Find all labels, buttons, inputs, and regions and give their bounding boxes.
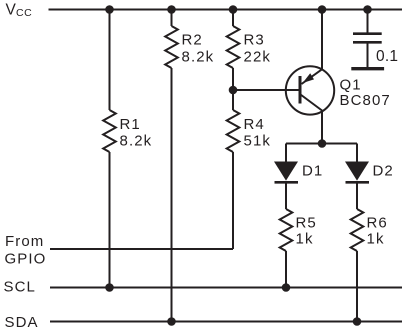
svg-text:R5: R5 xyxy=(296,215,317,232)
svg-text:8.2k: 8.2k xyxy=(182,49,215,66)
svg-text:R3: R3 xyxy=(244,31,265,48)
svg-text:D1: D1 xyxy=(302,163,323,180)
svg-text:R2: R2 xyxy=(182,31,203,48)
svg-text:SCL: SCL xyxy=(4,279,36,296)
svg-text:1k: 1k xyxy=(367,231,385,248)
svg-text:22k: 22k xyxy=(244,49,272,66)
svg-text:From: From xyxy=(5,233,44,250)
svg-text:1k: 1k xyxy=(296,231,314,248)
svg-text:Q1: Q1 xyxy=(340,77,362,94)
svg-text:R1: R1 xyxy=(120,116,141,133)
svg-text:0.1: 0.1 xyxy=(376,48,398,65)
svg-text:8.2k: 8.2k xyxy=(120,132,153,149)
svg-text:SDA: SDA xyxy=(5,314,39,331)
svg-text:R4: R4 xyxy=(244,116,265,133)
svg-text:GPIO: GPIO xyxy=(5,251,47,268)
svg-text:D2: D2 xyxy=(373,163,394,180)
svg-text:BC807: BC807 xyxy=(340,92,391,109)
svg-text:51k: 51k xyxy=(244,133,272,150)
svg-text:R6: R6 xyxy=(367,215,388,232)
svg-text:CC: CC xyxy=(16,7,32,19)
